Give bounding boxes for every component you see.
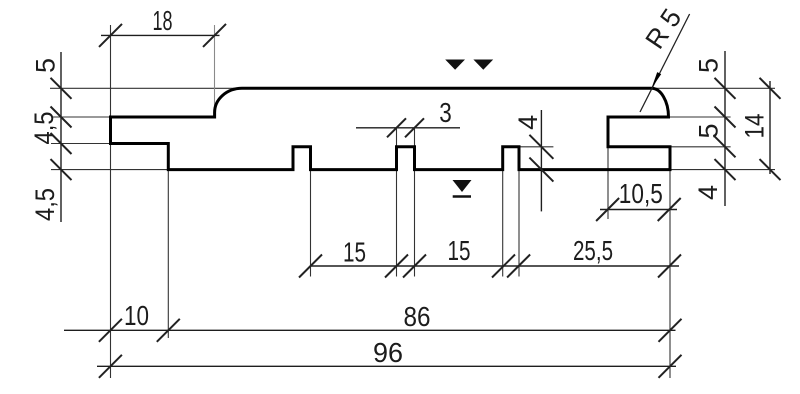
- svg-text:4,5: 4,5: [30, 188, 60, 221]
- profile outline of board: [111, 88, 671, 169]
- svg-text:96: 96: [373, 337, 403, 368]
- dimension column left vertical: [60, 52, 62, 222]
- ticks left column: [51, 78, 72, 180]
- ticks dim 18: [99, 24, 226, 47]
- extension line notch3 left vertical: [502, 170, 504, 277]
- surface finish underline bottom: [453, 195, 471, 197]
- ticks dim 96: [99, 355, 682, 378]
- svg-text:10: 10: [124, 300, 149, 331]
- extension line bottom surface left: [51, 169, 169, 171]
- ticks dims 15 15 25,5: [299, 255, 681, 278]
- extension line slot bottom right: [670, 146, 731, 148]
- extension line tongue step vertical: [167, 170, 169, 338]
- dimension line 4 middle vertical: [540, 110, 542, 211]
- extension line bottom surface right: [670, 169, 775, 171]
- extension line notch2 left vertical: [396, 128, 398, 147]
- dimension line 3: [356, 127, 460, 129]
- dimension line 18: [101, 34, 220, 36]
- svg-text:14: 14: [740, 114, 770, 139]
- svg-text:4: 4: [693, 185, 723, 200]
- svg-text:10,5: 10,5: [619, 178, 663, 209]
- ticks dim 10,5: [596, 198, 681, 221]
- ticks right column B: [760, 78, 781, 180]
- extension line top surface left: [50, 87, 243, 89]
- dimension column right A vertical: [724, 51, 726, 206]
- svg-text:25,5: 25,5: [573, 235, 613, 266]
- ticks dim 3: [387, 118, 424, 137]
- extension line right edge vertical: [669, 170, 671, 378]
- ticks dim 10 86: [99, 319, 682, 342]
- extension line left edge vertical: [110, 25, 112, 117]
- svg-text:3: 3: [439, 97, 452, 128]
- svg-text:18: 18: [153, 5, 173, 36]
- ticks dim 4 middle: [529, 135, 553, 182]
- extension line curve start vertical: [214, 25, 216, 113]
- extension line notch3 right vertical: [518, 170, 520, 277]
- extension line notch3 top for dim 4: [519, 146, 554, 148]
- ticks right column A: [715, 78, 736, 180]
- extension line notch1 right vertical: [310, 170, 312, 277]
- surface finish triangle top 2: [473, 60, 493, 70]
- R5 leader line: [640, 14, 690, 112]
- dimension line 15 15 25,5: [311, 265, 680, 267]
- svg-text:4: 4: [513, 115, 543, 130]
- dimension line 10 86: [64, 329, 676, 331]
- dimension line 96: [97, 365, 676, 367]
- dimension line 10,5: [600, 209, 677, 211]
- svg-text:4,5: 4,5: [29, 112, 59, 145]
- surface finish triangle top 1: [445, 60, 465, 70]
- svg-text:5: 5: [31, 58, 61, 73]
- dimension column right B vertical: [769, 81, 771, 174]
- svg-text:15: 15: [343, 237, 366, 268]
- extension line step top left: [51, 116, 111, 118]
- svg-text:86: 86: [404, 301, 431, 332]
- extension line slot top right: [669, 116, 731, 118]
- extension line slot inner vertical: [607, 147, 609, 219]
- R5 leader arrowhead: [652, 72, 662, 88]
- svg-text:15: 15: [448, 235, 471, 266]
- extension line notch2 right vertical: [414, 128, 416, 147]
- svg-text:5: 5: [694, 123, 724, 138]
- extension line tongue bottom left: [51, 143, 111, 145]
- surface finish triangle bottom: [453, 180, 472, 192]
- extension line top surface right: [652, 87, 776, 89]
- svg-text:5: 5: [694, 58, 724, 73]
